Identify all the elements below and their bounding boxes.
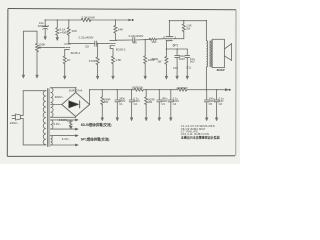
wire bbox=[23, 30, 37, 32]
labels PSU bbox=[10, 86, 225, 141]
capacitor C1 bbox=[116, 90, 118, 100]
ground bbox=[116, 118, 119, 121]
bottom notes bbox=[81, 122, 220, 141]
resistor 24K plate bbox=[114, 20, 116, 25]
resistor 10K bbox=[68, 20, 70, 27]
transformer heater winding 1 bbox=[51, 120, 53, 129]
B+ rail bbox=[45, 19, 81, 21]
resistor 160R/2W inline bbox=[134, 88, 143, 91]
capacitor C4 bbox=[170, 90, 172, 100]
triode U1 6DJ8-1 bbox=[64, 43, 70, 45]
cathode wire bbox=[165, 41, 167, 49]
potentiometer 100K bbox=[36, 43, 39, 52]
transformer core bbox=[47, 89, 49, 147]
resistor 1K cathode bbox=[63, 56, 66, 64]
resistor 15K grid stopper inline bbox=[149, 38, 156, 40]
ground bbox=[170, 118, 173, 121]
ground bbox=[145, 118, 148, 121]
pot wiper arrow bbox=[38, 46, 40, 48]
border frame bbox=[7, 9, 236, 157]
resistor 200R/5W inline bbox=[178, 88, 187, 91]
capacitor C5 bbox=[206, 90, 208, 100]
ground bbox=[22, 75, 25, 78]
resistor hum 100R bbox=[70, 120, 72, 122]
resistor 470K grid leak bbox=[97, 44, 99, 57]
triode U2 6DJ8-2 bbox=[110, 40, 117, 42]
resistor R 2.2K/10W inline bbox=[81, 18, 91, 21]
ground bbox=[176, 76, 179, 79]
wire plate1 to C8 bbox=[69, 43, 95, 45]
ground bbox=[205, 118, 208, 121]
ground bbox=[96, 76, 99, 79]
heater tap wire 4 bbox=[51, 144, 76, 146]
ground bbox=[144, 76, 147, 79]
ground bbox=[130, 118, 133, 121]
ground bbox=[186, 76, 189, 79]
bridge rectifier D1 bbox=[62, 92, 90, 116]
capacitor C9 bbox=[132, 38, 134, 43]
wire HV mid bbox=[51, 104, 62, 106]
box top wire bbox=[169, 20, 206, 22]
wire HV bottom bbox=[51, 116, 76, 118]
heater tap wire 1 bbox=[51, 119, 76, 121]
wire HV top bbox=[51, 87, 76, 89]
ground bbox=[112, 76, 115, 79]
capacitor C6 bbox=[216, 90, 218, 100]
transformer HV secondary bbox=[51, 88, 53, 117]
wire OPT to PSU rail bbox=[205, 67, 207, 90]
AC plug P1 bbox=[15, 114, 20, 120]
junction dots bbox=[45, 19, 218, 90]
capacitor C11 bbox=[186, 49, 188, 55]
wire plug top bbox=[20, 114, 23, 116]
ground bbox=[63, 76, 66, 79]
wire plug bottom bbox=[20, 118, 23, 120]
node B+ terminal bbox=[129, 19, 132, 21]
ground bbox=[165, 76, 168, 79]
grid wire bbox=[40, 46, 63, 48]
node B+ out terminal bbox=[225, 89, 228, 91]
ground bbox=[36, 75, 39, 78]
paper background bbox=[0, 0, 240, 164]
pentode V3 6P1 bbox=[163, 38, 166, 40]
wire input left bbox=[22, 31, 24, 75]
capacitor C7 bbox=[44, 20, 46, 26]
labels amp section bbox=[38, 15, 225, 72]
ground bbox=[101, 118, 104, 121]
capacitor C2 bbox=[131, 90, 133, 100]
resistor 5.1K bbox=[56, 20, 58, 28]
resistor 1.5K 2W screen bbox=[183, 21, 185, 24]
heater tap wire 2 bbox=[51, 128, 76, 130]
wire bridge out bbox=[89, 90, 91, 105]
wire plate2 to C9 bbox=[116, 39, 132, 41]
resistor 1.5K cathode bbox=[112, 56, 115, 64]
capacitor C3 bbox=[158, 90, 160, 100]
PSU B+ rail bbox=[90, 89, 134, 91]
resistor 100R 3W bbox=[145, 90, 147, 97]
resistor R bleed 240R bbox=[101, 90, 103, 97]
resistor 100K grid leak bbox=[144, 40, 146, 56]
output transformer T2 primary bbox=[205, 21, 207, 41]
heater tap wire 3 bbox=[51, 135, 76, 137]
transformer heater winding 2 bbox=[51, 136, 53, 146]
ground bbox=[215, 118, 218, 121]
capacitor C10 bbox=[176, 49, 178, 55]
plate to top bbox=[168, 21, 170, 37]
transformer T1 primary bbox=[43, 91, 46, 145]
capacitor C8 bbox=[94, 41, 96, 46]
ground bbox=[158, 118, 161, 121]
speaker SP bbox=[212, 39, 224, 67]
ground bbox=[44, 37, 47, 40]
resistor 560R cathode bbox=[165, 49, 167, 56]
ground bbox=[56, 38, 59, 41]
